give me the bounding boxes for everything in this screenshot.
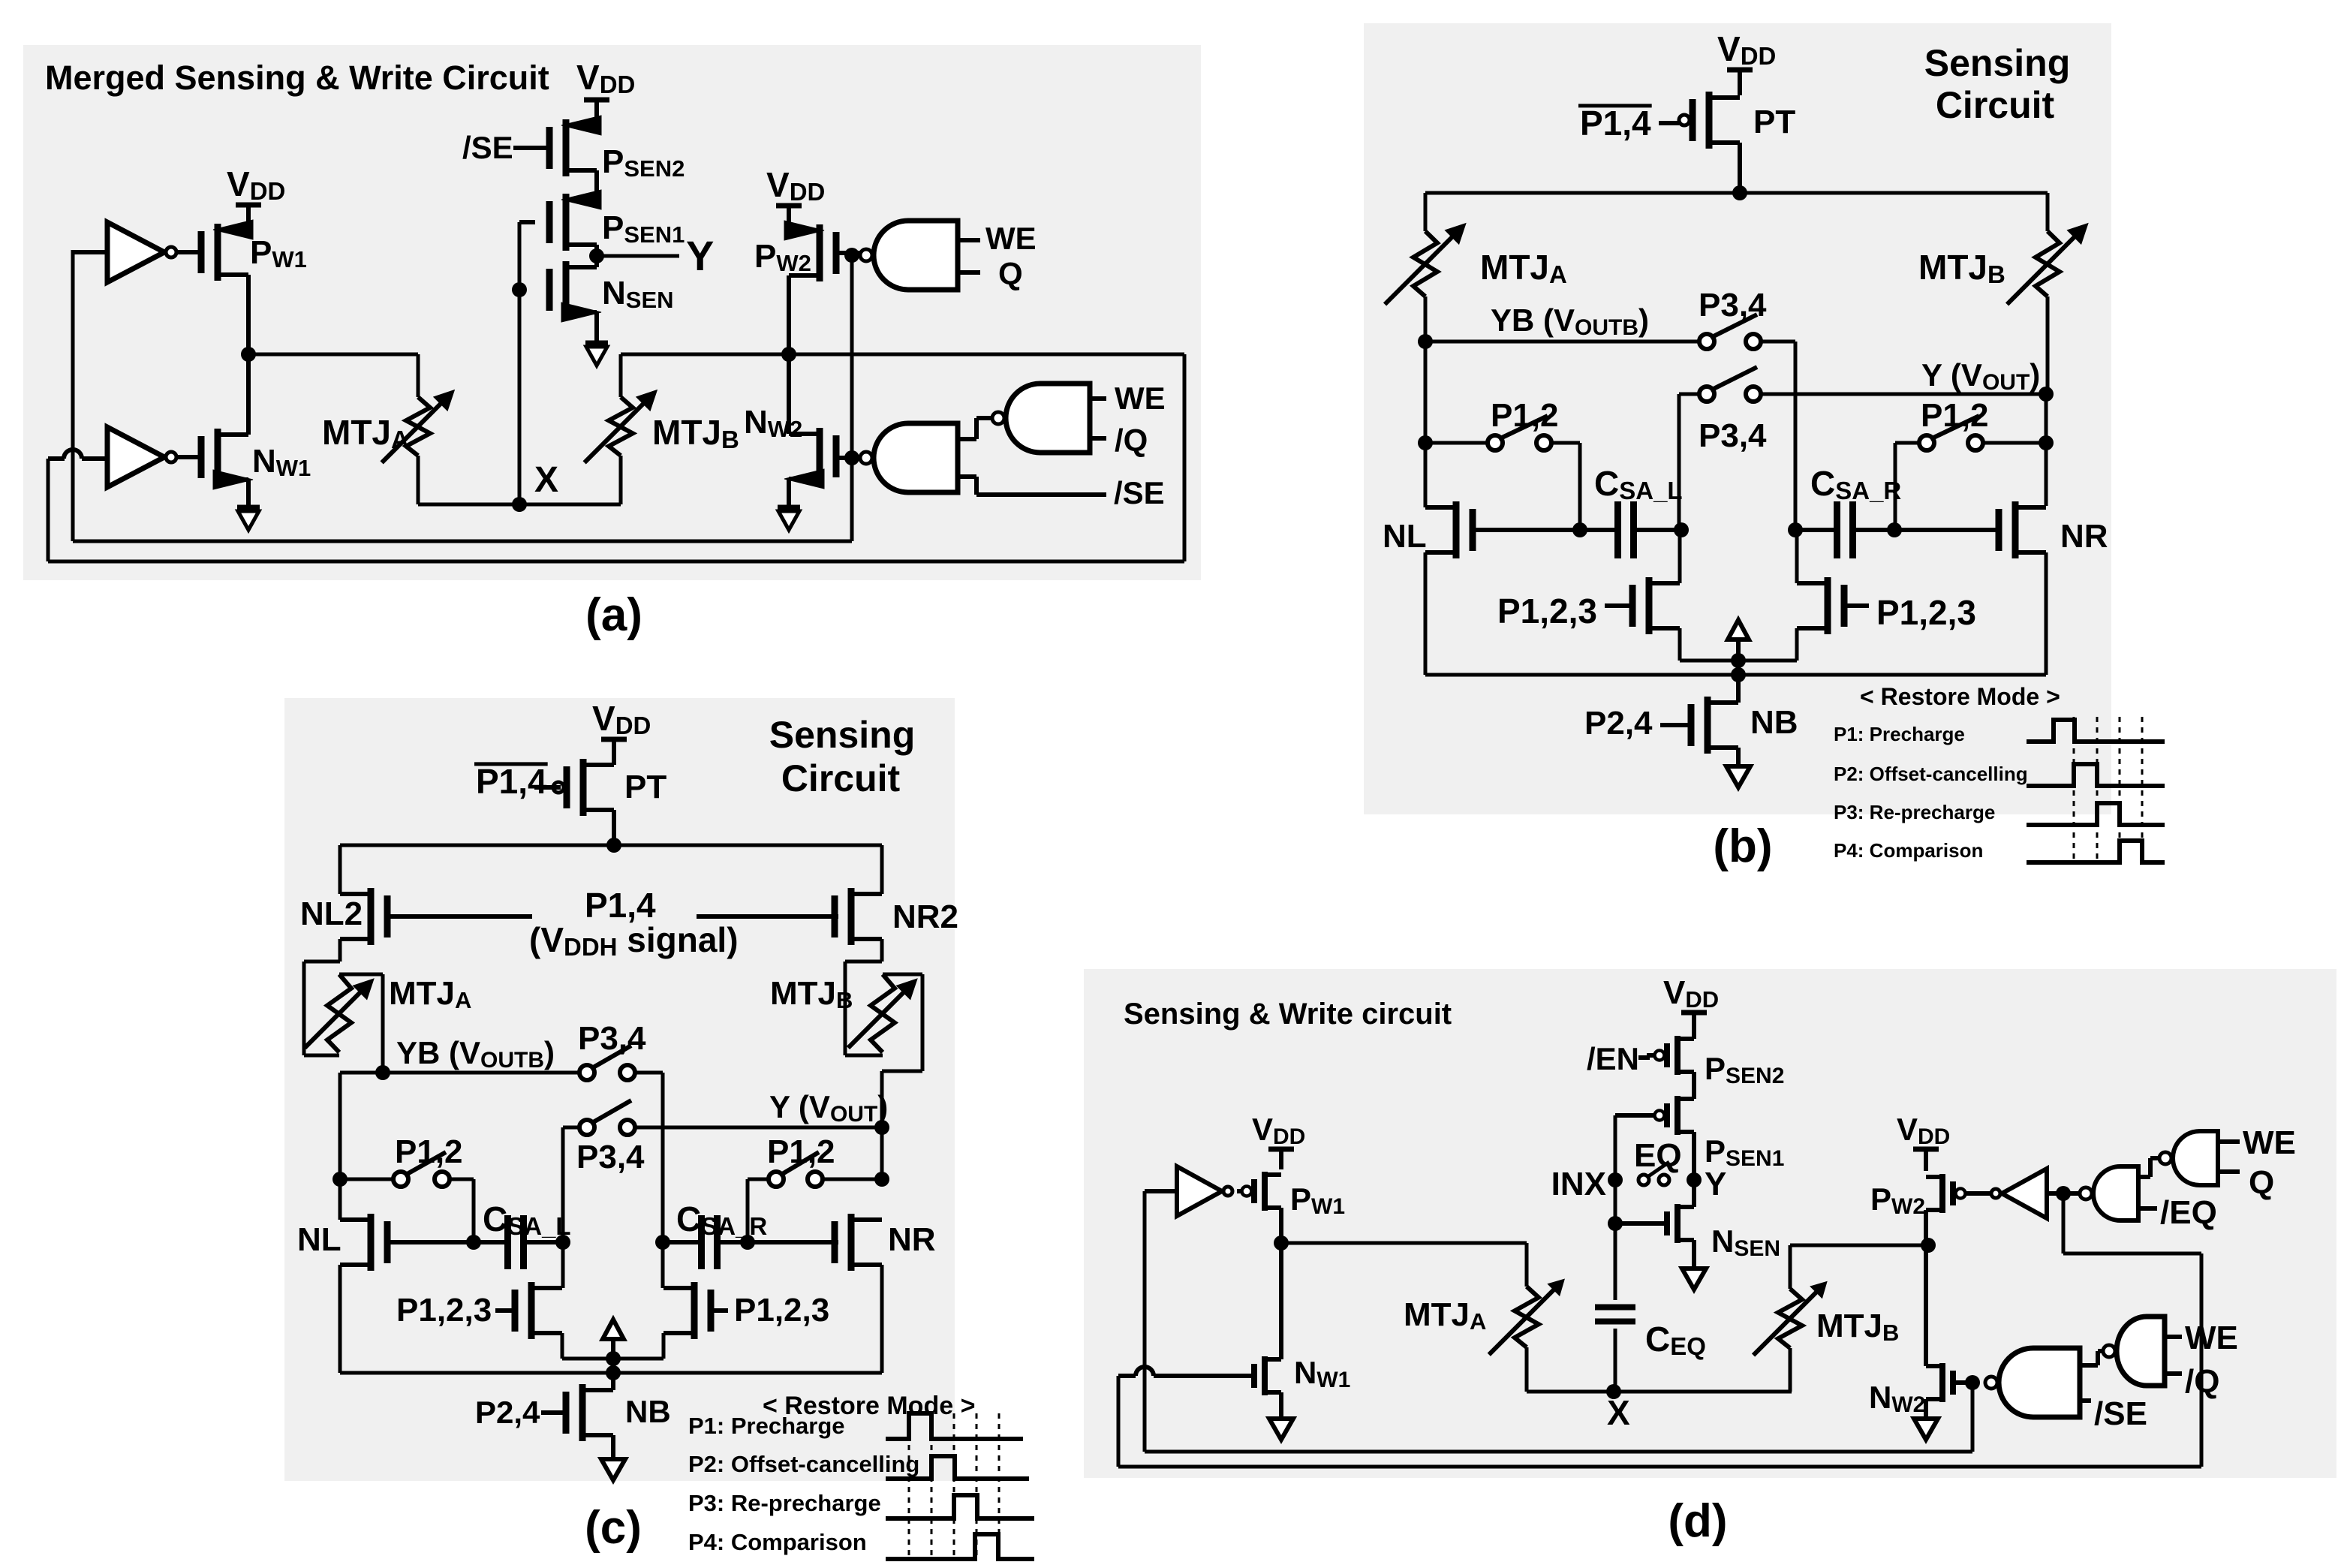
svg-text:/SE: /SE: [1114, 475, 1165, 510]
wire S3 right riser (c): [450, 1179, 474, 1242]
node PW2 drain junction (d): [1921, 1238, 1936, 1253]
wire feedback1 (d): [1145, 1383, 1972, 1452]
caption (a): [585, 589, 642, 641]
svg-text:Sensing: Sensing: [1924, 42, 2070, 84]
transistor PW2 (PMOS, d): [1870, 1174, 1992, 1219]
wire S4 right (c): [823, 1178, 882, 1181]
node CSA_R left junction (b): [1788, 522, 1803, 537]
node PW2 gate junction: [844, 248, 859, 263]
svg-text:Y: Y: [1705, 1166, 1726, 1202]
capacitor CSA_L (c): [474, 1199, 571, 1269]
switch EQ (d): [1634, 1137, 1682, 1185]
node Y junction: [589, 248, 604, 263]
transistor PSEN2 (PMOS): [549, 116, 685, 182]
node X label: [534, 460, 558, 500]
nand gate U3 (WE,/Q): [992, 384, 1090, 453]
wire inverter1 input riser: [73, 250, 107, 541]
inverter INV1 (drives PW1): [107, 222, 176, 282]
transistor NSEN (NMOS, d): [1615, 1204, 1780, 1261]
power VDD (PT b): [1717, 29, 1776, 95]
wire MTJ_A top to YB (c): [339, 974, 383, 1073]
power VDD (PW1): [227, 164, 285, 230]
svg-text:P3: Re-precharge: P3: Re-precharge: [688, 1490, 881, 1516]
panel (a) title: [45, 59, 549, 97]
wire PSEN2 drain to PSEN1 (d): [1692, 1072, 1696, 1099]
svg-text:P1,2: P1,2: [395, 1133, 463, 1170]
inverter INVd (drives PW1 d): [1177, 1166, 1232, 1216]
transistor PT (PMOS, b): [1679, 92, 1795, 149]
ground NSEN (d): [1682, 1269, 1706, 1290]
nand gate U6 (-> NW2 gate, d): [1985, 1348, 2080, 1417]
wire PW2 gate to NAND: [836, 251, 863, 255]
wire S4 left riser: [1895, 443, 1919, 530]
wire S2 left to riser: [1679, 394, 1699, 530]
wire PSEN1 drain to Y: [594, 245, 599, 267]
svg-text:NL2: NL2: [300, 895, 363, 932]
transistor NB (NMOS, b): [1660, 697, 1798, 754]
wire NW2 drain up (d): [1924, 1245, 1928, 1366]
svg-text:P3,4: P3,4: [578, 1020, 646, 1057]
node INX label (d): [1551, 1166, 1606, 1202]
text P1 Precharge (c): [688, 1413, 845, 1439]
wire inverter to dot (d): [2047, 1191, 2057, 1196]
waveform P3 (b): [2027, 803, 2165, 825]
svg-text:P4: Comparison: P4: Comparison: [1834, 839, 1983, 862]
wire NW1 source down (d): [1279, 1392, 1283, 1419]
inverter INVd2 (drives PW2, d): [1991, 1169, 2047, 1218]
wire MTJ_B bottom to X (d): [1789, 1348, 1792, 1392]
node YB junction (b): [1418, 334, 1433, 349]
MTJ_B (a): [585, 390, 739, 463]
wire U3 input /Q: [1090, 423, 1148, 458]
capacitor CEQ (d): [1595, 1308, 1706, 1361]
wire NL source down (b): [1424, 552, 1428, 675]
transistor NW1 (NMOS, d): [1254, 1355, 1350, 1395]
wire PT drain to rail (c): [612, 810, 616, 845]
wire feedback2 left riser: [47, 459, 50, 561]
svg-text:P1,2: P1,2: [767, 1133, 835, 1170]
nand gate U7 (WE,/Q, d): [2103, 1317, 2165, 1386]
switch S3 P1,2 (left, b): [1488, 397, 1559, 450]
wire CSA_R to NR gate (c): [748, 1240, 838, 1244]
wire P123R drain riser: [1795, 530, 1799, 583]
MTJ_A (c): [305, 974, 471, 1052]
wire YB row (b): [1425, 302, 1699, 342]
port P1,4bar (PT gate c): [474, 762, 561, 801]
wire MTJ_A bottom to X (d): [1525, 1347, 1529, 1392]
transistor PW2 (PMOS): [754, 221, 836, 281]
wire PSEN1 gate elbow: [519, 222, 535, 504]
caption (b): [1713, 820, 1772, 872]
node CSA_R left junction (c): [655, 1235, 670, 1250]
wire CEQ to X (d): [1614, 1329, 1617, 1392]
svg-text:Q: Q: [998, 256, 1023, 291]
node X junction (d): [1606, 1384, 1621, 1399]
ground NW1 (d): [1269, 1419, 1293, 1440]
svg-text:P1,4: P1,4: [1580, 104, 1651, 143]
node NL gate junction (b): [1572, 522, 1587, 537]
node inverter input junction (d): [2056, 1186, 2071, 1201]
caption (c): [585, 1502, 642, 1554]
svg-text:P1,2,3: P1,2,3: [1497, 591, 1597, 631]
ground NB (c): [601, 1459, 625, 1480]
wire U1 input WE: [958, 221, 1037, 256]
power VDD (PW2): [766, 165, 825, 230]
node CSA_L right junction (b): [1674, 522, 1689, 537]
MTJ_B (d): [1753, 1282, 1899, 1356]
capacitor CSA_R (c): [663, 1199, 767, 1269]
wire S1 right riser (c): [635, 1073, 663, 1242]
text P3 Re-precharge (b): [1834, 801, 1995, 823]
wire NSEN source down (d): [1692, 1240, 1696, 1269]
wire U3 input WE: [1090, 381, 1166, 416]
wire right branch Y to NR: [2045, 394, 2048, 506]
wire NB drain up (c): [611, 1373, 615, 1390]
wire NW1 gate with hop (d): [1118, 1367, 1254, 1376]
waveform P2 (c): [886, 1456, 1029, 1479]
wire PW1 drain to MTJ_A (d): [1281, 1243, 1527, 1287]
svg-text:NL: NL: [297, 1221, 342, 1258]
transistor NW2 (NMOS, d): [1869, 1363, 1966, 1417]
svg-text:P3,4: P3,4: [1699, 417, 1767, 454]
node CSA_L right junction (c): [555, 1235, 570, 1250]
node Y junction (c): [874, 1120, 889, 1135]
transistor NL (NMOS, b): [1383, 501, 1580, 558]
wire MTJ_B bottom elbow: [618, 456, 621, 504]
wire PW2 drain down: [787, 275, 791, 354]
wire U5 input WE (d): [2218, 1124, 2296, 1161]
wire PW2 drain to MTJ_B (d): [1790, 1245, 1928, 1289]
node YB junction (c): [375, 1065, 390, 1080]
wire NW1 drain up: [246, 354, 251, 435]
port P1,4bar (PT gate): [1578, 104, 1679, 143]
node PW1/NW1 drain junction: [241, 347, 256, 362]
transistor P123L (NMOS, b): [1497, 577, 1680, 634]
wire NR source down (c): [880, 1265, 884, 1373]
wire P12L vert (c): [339, 1073, 342, 1179]
wire NR source down (b): [2045, 552, 2048, 675]
svg-text:P1,2: P1,2: [1491, 397, 1559, 434]
transistor NR (NMOS, c): [835, 1214, 936, 1271]
power VDD (PSEN2 d): [1663, 974, 1719, 1039]
wire MTJ_B top elbow: [619, 354, 623, 397]
wire U5 input Q (d): [2218, 1164, 2274, 1201]
wire PW1 drain to node: [246, 275, 251, 354]
svg-text:P1,2,3: P1,2,3: [734, 1292, 829, 1329]
node rail junction (c): [606, 838, 621, 853]
node tail junction (b): [1731, 653, 1746, 668]
wire NW2 source down: [787, 479, 791, 506]
svg-text:WE: WE: [985, 221, 1037, 256]
transistor NL (NMOS, c): [297, 1214, 474, 1271]
nand gate U2 (-> NW2 gate): [860, 423, 958, 492]
wire P123R drain riser (c): [661, 1242, 665, 1288]
wire NW1 source down: [246, 480, 251, 506]
MTJ_A (a): [322, 390, 454, 463]
node P12L left junction (c): [332, 1172, 348, 1187]
wire X rail (d): [1527, 1390, 1792, 1394]
wire P123R source elbow (c): [613, 1333, 663, 1359]
svg-text:P1: Precharge: P1: Precharge: [1834, 723, 1965, 745]
wire U6 input lower /SE (d): [2080, 1395, 2147, 1432]
wire PW2 drain down (d): [1924, 1210, 1928, 1245]
svg-text:P3,4: P3,4: [1699, 287, 1767, 324]
panel (c) background box: [284, 698, 955, 1481]
node Y label (d): [1705, 1166, 1726, 1202]
svg-text:/EN: /EN: [1587, 1041, 1639, 1076]
wire inverter input riser (d): [1145, 1191, 1177, 1452]
svg-text:INX: INX: [1551, 1166, 1606, 1202]
node bottom rail junction (b): [1731, 667, 1746, 682]
svg-text:NL: NL: [1383, 518, 1427, 555]
wire PW1 drain down (d): [1279, 1208, 1283, 1243]
wire PSEN1 gate riser (d): [1614, 1115, 1617, 1180]
wire left branch down (b): [1424, 193, 1428, 231]
svg-text:Sensing: Sensing: [769, 714, 915, 756]
power VDD (PW2 d): [1897, 1112, 1950, 1171]
wire NR2 source jog (c): [845, 939, 883, 1055]
svg-text:P2,4: P2,4: [1584, 705, 1653, 742]
svg-text:EQ: EQ: [1634, 1137, 1682, 1174]
transistor PSEN2 (PMOS, d): [1647, 1036, 1784, 1088]
wire YB corner down to NL (c): [339, 1073, 342, 1220]
node X label (d): [1607, 1393, 1630, 1432]
ground NB (b): [1726, 766, 1750, 787]
transistor NR2 (NMOS, c): [835, 888, 958, 945]
power VDD (PSEN2): [576, 58, 635, 125]
wire feedback2 riser left (d): [1117, 1376, 1121, 1467]
wire NB drain up (b): [1736, 675, 1741, 703]
svg-text:Y: Y: [686, 232, 714, 279]
svg-text:(b): (b): [1713, 820, 1772, 872]
wire MTJ_B to Y node: [2046, 296, 2050, 394]
wire NW2 gate: [836, 456, 863, 460]
switch S4 P1,2 (right, c): [767, 1133, 835, 1187]
svg-text:Sensing & Write circuit: Sensing & Write circuit: [1124, 998, 1452, 1031]
wire U1 input Q: [958, 256, 1023, 291]
wire MTJ_B top jog (c): [882, 974, 922, 1127]
svg-text:NR2: NR2: [892, 898, 958, 935]
node INX junction (d): [1608, 1172, 1623, 1187]
node NSEN gate junction: [512, 282, 527, 297]
text P4 Comparison (b): [1834, 839, 1983, 862]
wire NL drain elbow (b): [1424, 443, 1428, 507]
text restore mode (b): [1860, 683, 2060, 710]
svg-text:P3: Re-precharge: P3: Re-precharge: [1834, 801, 1995, 823]
wire NR2 gate (c): [697, 914, 838, 919]
svg-text:(a): (a): [585, 589, 642, 641]
nand gate U5 (WE,Q, d): [2159, 1131, 2218, 1185]
svg-text:P1,2: P1,2: [1921, 397, 1989, 434]
transistor PW1 (PMOS): [201, 220, 307, 281]
panel (c) title: [769, 714, 915, 799]
svg-text:P1: Precharge: P1: Precharge: [688, 1413, 845, 1439]
svg-text:NB: NB: [625, 1394, 671, 1429]
wire INX riser to CEQ (d): [1614, 1180, 1617, 1300]
wire feedback2 right riser: [1183, 354, 1187, 561]
wire S3 left (c): [340, 1178, 393, 1181]
panel (b) title: [1924, 42, 2070, 126]
port P2,4 (NB gate, c): [475, 1395, 540, 1430]
wire bottom rail (b): [1425, 673, 2046, 677]
wire right branch down (b): [2046, 193, 2050, 231]
waveform P4 (b): [2027, 841, 2165, 862]
wire NW1 gate: [176, 455, 202, 459]
wire NL source down (c): [339, 1265, 342, 1373]
svg-text:NB: NB: [1750, 704, 1798, 741]
text P2 Offset-cancelling (b): [1834, 763, 2028, 785]
svg-text:/Q: /Q: [2185, 1363, 2219, 1400]
node CSA_R right junction (c): [740, 1235, 755, 1250]
svg-text:P1,2,3: P1,2,3: [1876, 593, 1976, 632]
svg-text:(c): (c): [585, 1502, 642, 1554]
transistor PT (PMOS, c): [553, 759, 666, 816]
power VDD (PT c): [592, 699, 651, 765]
ground NW2: [778, 507, 800, 530]
wire Y to P12R (c): [880, 1127, 884, 1179]
caption (d): [1668, 1495, 1727, 1547]
svg-text:P1,4: P1,4: [476, 762, 547, 801]
wire NW2 source down (d): [1924, 1399, 1928, 1419]
wire Y row (c): [635, 1089, 888, 1127]
wire S3 left: [1425, 441, 1488, 445]
wire P123L source elbow: [1680, 628, 1738, 661]
svg-text:/SE: /SE: [462, 130, 513, 165]
text P3 Re-precharge (c): [688, 1490, 881, 1516]
MTJ_B (b): [1918, 224, 2088, 305]
waveform P2 (b): [2027, 764, 2165, 786]
svg-text:PT: PT: [624, 769, 666, 805]
wire feedback1 riser to NW2/PW2 gates: [850, 255, 854, 541]
wire P123L source elbow (c): [562, 1333, 613, 1359]
wire CSA_R to NR gate: [1894, 528, 2000, 532]
ground NW2 (d): [1914, 1419, 1938, 1440]
port P2,4 (NB gate, b): [1584, 705, 1653, 742]
wire NW2 drain up: [787, 354, 791, 434]
node NL gate junction (c): [466, 1235, 481, 1250]
text P4 Comparison (c): [688, 1529, 867, 1555]
wire NW1 drain up (d): [1279, 1243, 1283, 1359]
MTJ_A (b): [1385, 224, 1567, 305]
wire inverter2 input with hop: [48, 450, 107, 459]
node bottom rail junction (c): [606, 1365, 621, 1380]
svg-text:< Restore Mode >: < Restore Mode >: [1860, 683, 2060, 710]
text P1 Precharge (b): [1834, 723, 1965, 745]
panel (d) title: [1124, 998, 1452, 1031]
wire NL2 source jog (c): [304, 939, 340, 1055]
node PW1 drain junction (d): [1274, 1235, 1289, 1250]
transistor NL2 (NMOS, c): [300, 888, 532, 945]
node Y label: [686, 232, 714, 279]
svg-text:(d): (d): [1668, 1495, 1727, 1547]
svg-text:PT: PT: [1753, 104, 1795, 140]
wire U4 input upper to U5 (d): [2138, 1158, 2162, 1177]
ground NSEN: [585, 343, 608, 366]
svg-text:P2,4: P2,4: [475, 1395, 540, 1430]
wire YB row (c): [340, 1035, 579, 1073]
switch S1 P3,4 (YB, b): [1699, 287, 1767, 349]
node PW2 drain junction: [781, 347, 796, 362]
transistor NW1 (NMOS): [201, 429, 311, 489]
node NW2 gate junction (d): [1965, 1375, 1980, 1390]
svg-text:/Q: /Q: [1115, 423, 1148, 458]
wire U6 input upper to U7 (d): [2080, 1351, 2103, 1365]
wire feedback2 (d): [1118, 1193, 2201, 1467]
wire S4 left riser (c): [748, 1179, 769, 1242]
nand gate U4 (WE,/EQ -> inv, d): [2080, 1166, 2138, 1220]
waveform P1 (b): [2027, 720, 2165, 742]
bulk arrow (b): [1728, 620, 1749, 661]
wire Y stub: [597, 254, 679, 258]
switch S4 P1,2 (right, b): [1919, 397, 1989, 450]
wire Y row (b): [1761, 357, 2046, 395]
wire S4 right: [1983, 441, 2046, 445]
wire top rail (c): [340, 844, 882, 847]
node NW2 gate junction: [844, 450, 859, 465]
wire left branch down (c): [339, 845, 342, 894]
node rail junction (b): [1732, 185, 1747, 200]
svg-text:P2: Offset-cancelling: P2: Offset-cancelling: [688, 1451, 919, 1477]
waveform P4 (c): [886, 1534, 1034, 1559]
panel (a) background box: [23, 45, 1201, 580]
wire P123L drain riser: [1678, 530, 1682, 583]
wire MTJ_A to YB node: [1424, 296, 1428, 342]
svg-text:/EQ: /EQ: [2160, 1194, 2217, 1231]
panel (d) background box: [1084, 969, 2336, 1478]
svg-text:P1,4: P1,4: [585, 886, 656, 925]
wire U4 output to dot (d): [2063, 1191, 2080, 1196]
node P12L junction (b): [1418, 435, 1433, 450]
switch S2 P3,4 (Y, b): [1699, 367, 1767, 454]
svg-text:NR: NR: [2060, 518, 2108, 555]
waveform P3 (c): [886, 1495, 1034, 1518]
transistor P123L (NMOS, c): [396, 1282, 562, 1339]
svg-text:(VDDH signal): (VDDH signal): [529, 920, 739, 961]
bulk arrow (c): [603, 1320, 624, 1359]
MTJ_A (d): [1404, 1279, 1564, 1354]
wire U2 input lower to /SE: [958, 477, 1106, 495]
capacitor CSA_L (b): [1580, 464, 1683, 558]
wire P123L drain riser (c): [561, 1242, 565, 1288]
svg-text:/SE: /SE: [2094, 1395, 2147, 1432]
wire PSEN2 drain to PSEN1: [594, 170, 599, 200]
text restore mode (c): [763, 1392, 975, 1420]
node P12R right junction (c): [874, 1172, 889, 1187]
svg-text:WE: WE: [2185, 1320, 2238, 1356]
wire NB source down (b): [1736, 748, 1741, 766]
svg-text:P1,2,3: P1,2,3: [396, 1292, 492, 1329]
wire PT drain to rail: [1738, 143, 1742, 193]
wire NSEN source down: [594, 312, 599, 342]
svg-text:WE: WE: [1115, 381, 1166, 416]
wire PW1 gate: [176, 250, 202, 254]
wire top rail (b): [1425, 191, 2048, 195]
node tail junction (c): [606, 1351, 621, 1366]
waveform P1 (c): [886, 1413, 1023, 1439]
svg-text:P2: Offset-cancelling: P2: Offset-cancelling: [1834, 763, 2028, 785]
wire X rail: [418, 503, 621, 507]
switch S1 P3,4 (YB, c): [578, 1020, 646, 1080]
wire U2 input upper to U3: [958, 418, 992, 439]
panel (b) background box: [1364, 23, 2111, 814]
wire right drain rail: [621, 353, 1184, 357]
svg-text:P3,4: P3,4: [576, 1139, 645, 1175]
transistor PW1 (PMOS, d): [1237, 1172, 1345, 1219]
port /SE (PSEN2 gate): [462, 130, 552, 165]
text P1,4 gate label (c): [529, 886, 739, 961]
wire bottom rail (c): [340, 1371, 882, 1375]
capacitor CSA_R (b): [1795, 464, 1901, 558]
